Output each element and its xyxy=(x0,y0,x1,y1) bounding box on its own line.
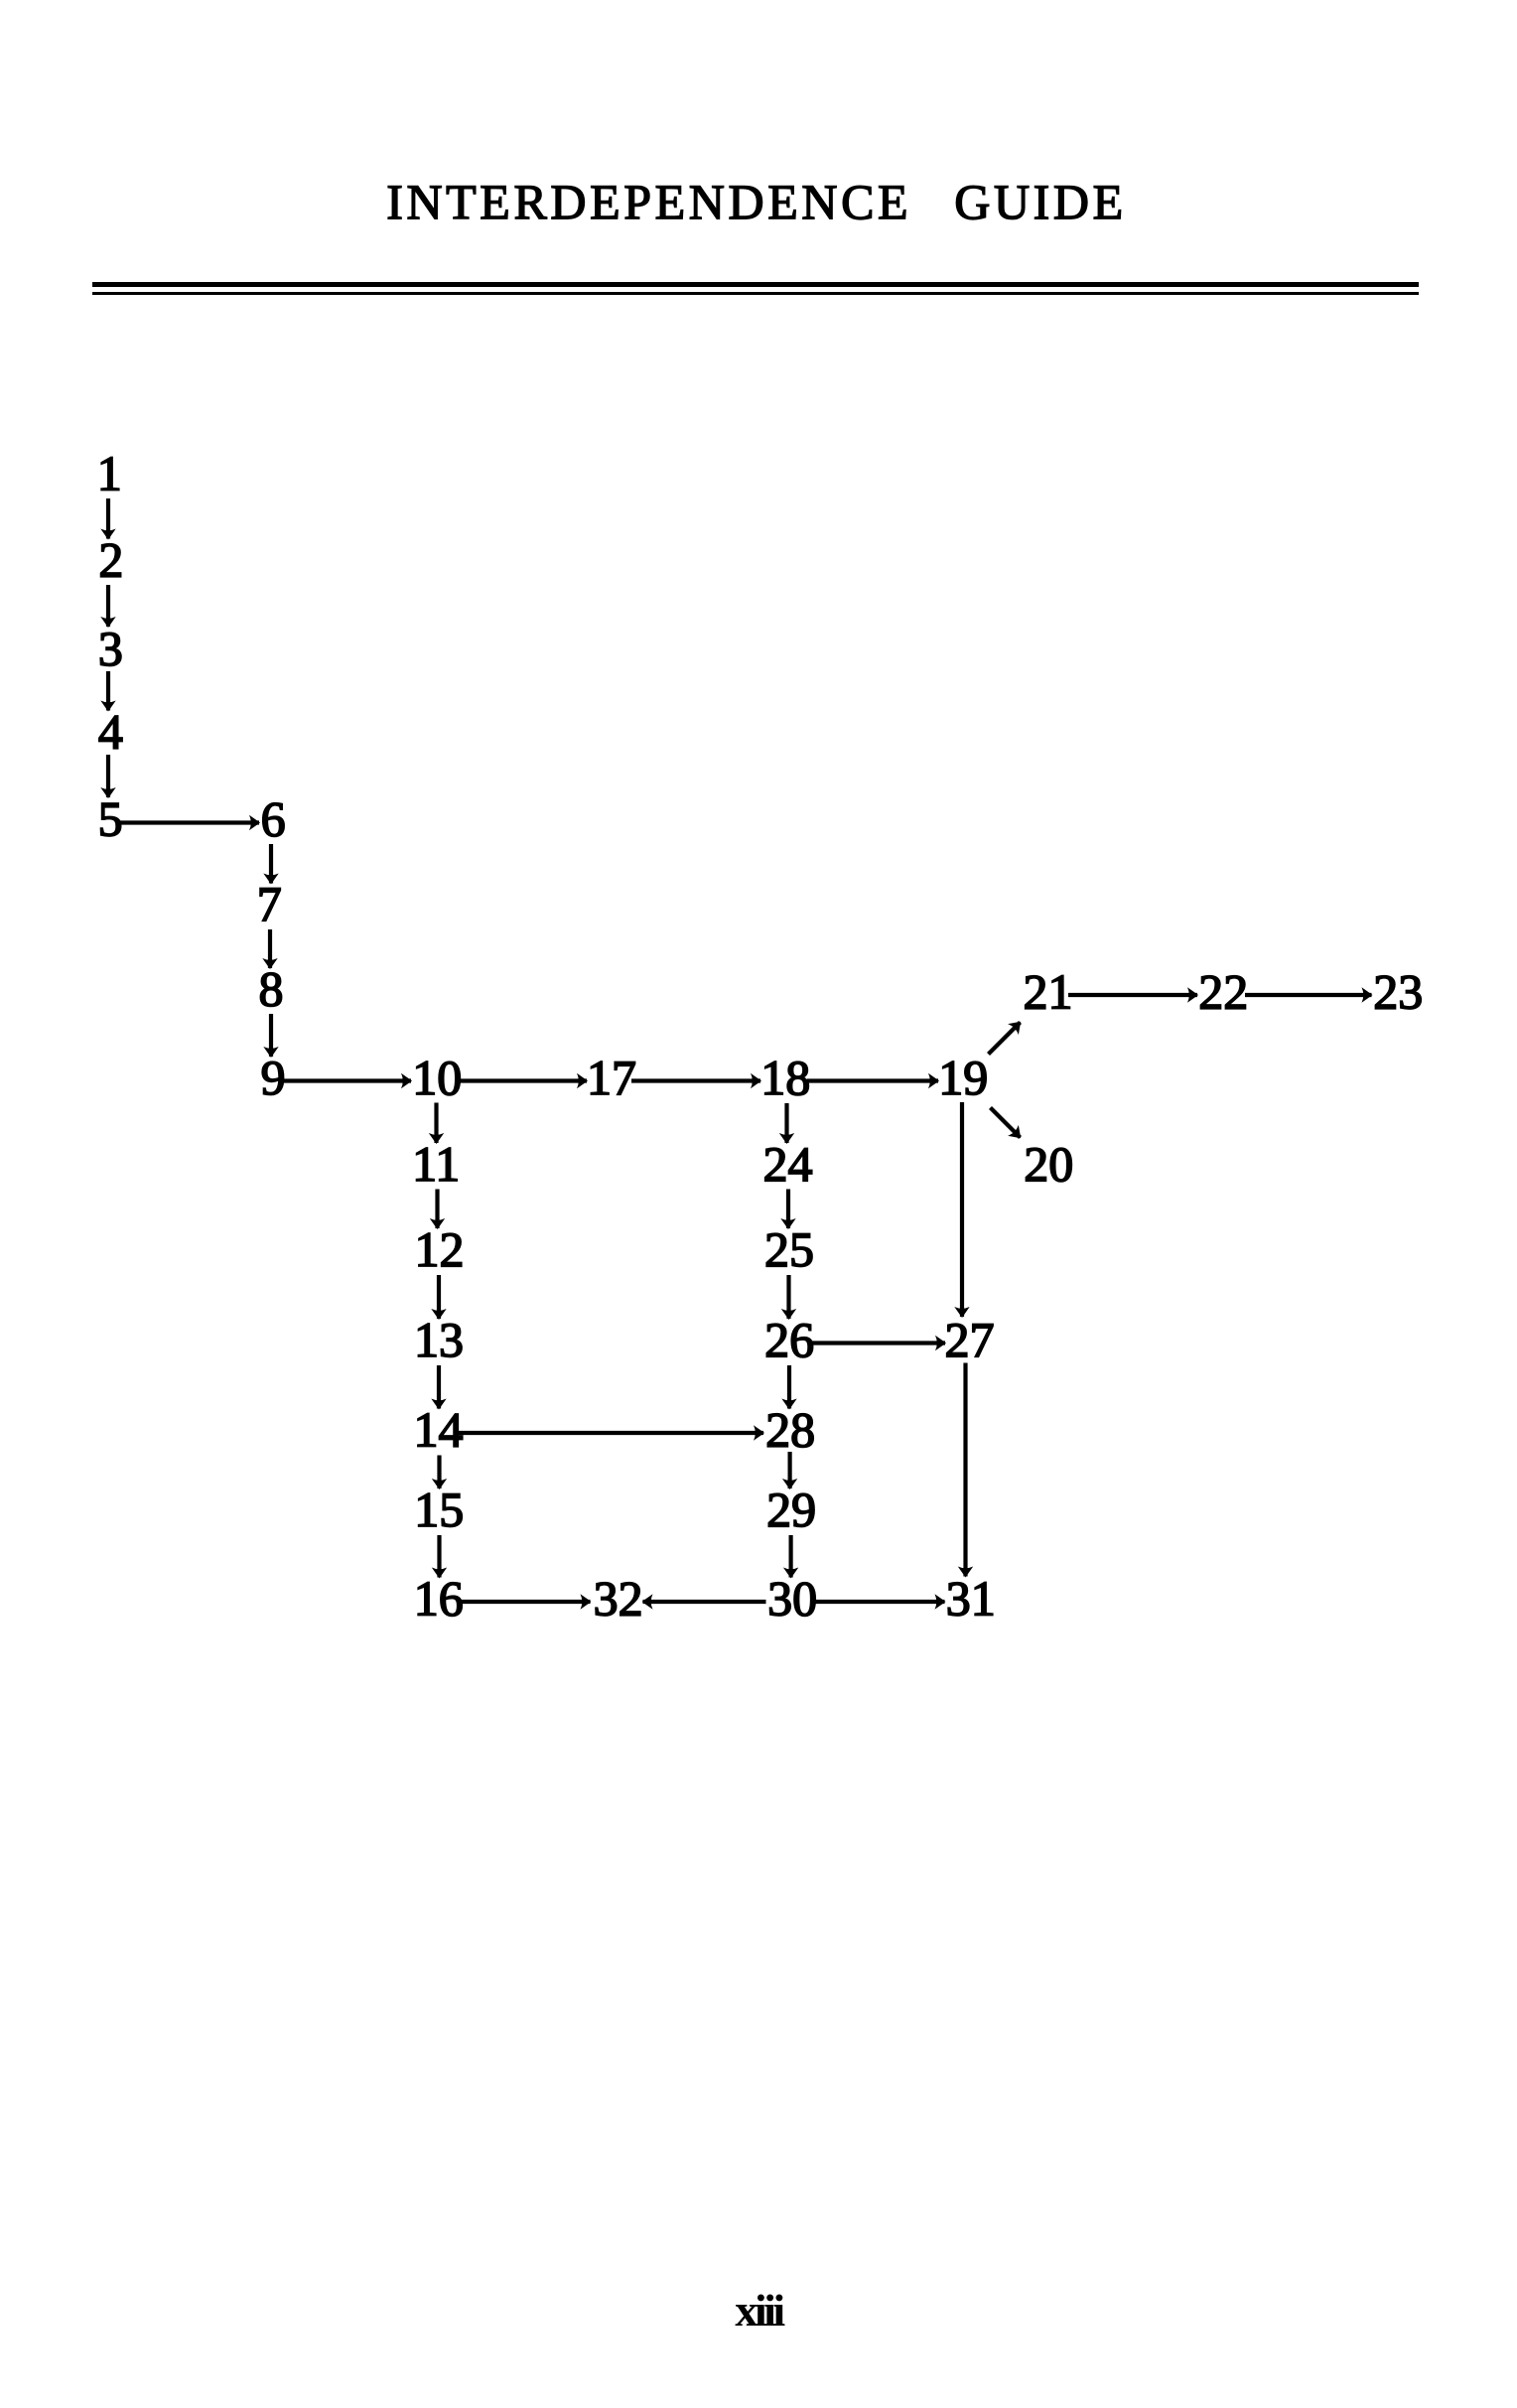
svg-text:15: 15 xyxy=(414,1482,464,1537)
double rule upper line xyxy=(92,282,1419,287)
svg-text:5: 5 xyxy=(98,791,123,847)
arrow 18-24 xyxy=(784,1103,788,1143)
svg-text:2: 2 xyxy=(98,532,123,588)
arrow 19-21 xyxy=(989,1023,1021,1055)
arrow 17-18 xyxy=(631,1078,760,1082)
arrow 24-25 xyxy=(786,1190,790,1229)
svg-text:25: 25 xyxy=(764,1221,814,1277)
arrow 1-2 xyxy=(106,498,110,539)
svg-text:14: 14 xyxy=(414,1402,464,1458)
arrow 6-7 xyxy=(269,844,273,884)
svg-text:27: 27 xyxy=(945,1312,995,1367)
svg-text:6: 6 xyxy=(261,791,286,847)
svg-text:1: 1 xyxy=(97,446,122,501)
svg-text:20: 20 xyxy=(1024,1136,1073,1192)
svg-text:3: 3 xyxy=(98,621,123,676)
svg-text:26: 26 xyxy=(764,1312,814,1367)
svg-text:16: 16 xyxy=(414,1571,464,1627)
svg-text:19: 19 xyxy=(938,1050,988,1105)
arrow 22-23 xyxy=(1245,993,1372,997)
page number xiii xyxy=(0,2284,1517,2337)
svg-text:22: 22 xyxy=(1198,964,1248,1020)
arrow 30-32 xyxy=(643,1600,766,1604)
arrow 14-15 xyxy=(437,1456,441,1489)
arrow 28-29 xyxy=(787,1452,791,1488)
svg-text:17: 17 xyxy=(587,1050,636,1105)
arrow 5-6 xyxy=(120,820,260,824)
arrow 8-9 xyxy=(269,1014,273,1057)
svg-text:28: 28 xyxy=(765,1402,815,1458)
arrow 18-19 xyxy=(807,1078,938,1082)
svg-text:9: 9 xyxy=(261,1050,286,1105)
svg-text:24: 24 xyxy=(763,1136,813,1192)
svg-text:21: 21 xyxy=(1024,964,1073,1020)
arrow 26-28 xyxy=(787,1365,791,1409)
svg-text:12: 12 xyxy=(415,1221,465,1277)
arrow 26-27 xyxy=(810,1341,945,1345)
arrow 30-31 xyxy=(814,1600,945,1604)
arrow 21-22 xyxy=(1068,993,1197,997)
arrow 27-31 xyxy=(963,1363,967,1577)
arrow 10-11 xyxy=(434,1103,438,1144)
svg-text:10: 10 xyxy=(412,1050,462,1105)
arrow 13-14 xyxy=(437,1365,441,1409)
arrow 10-17 xyxy=(457,1078,587,1082)
svg-text:7: 7 xyxy=(257,876,282,931)
svg-text:31: 31 xyxy=(946,1571,996,1627)
svg-text:13: 13 xyxy=(414,1312,464,1367)
arrow 15-16 xyxy=(437,1535,441,1578)
arrow 29-30 xyxy=(788,1535,792,1578)
arrow 4-5 xyxy=(106,755,110,797)
arrow 12-13 xyxy=(437,1275,441,1319)
arrow 19-27 xyxy=(960,1102,964,1317)
arrow 14-28 xyxy=(459,1431,764,1435)
arrow 3-4 xyxy=(106,671,110,711)
arrow 9-10 xyxy=(284,1078,411,1082)
title INTERDEPENDENCE GUIDE xyxy=(0,173,1515,230)
svg-text:30: 30 xyxy=(767,1571,817,1627)
arrow 16-32 xyxy=(460,1600,591,1604)
arrow 25-26 xyxy=(786,1275,790,1319)
svg-text:23: 23 xyxy=(1373,964,1423,1020)
arrow 11-12 xyxy=(435,1190,439,1229)
arrow 2-3 xyxy=(106,585,110,627)
double rule lower line xyxy=(92,292,1419,296)
arrow 7-8 xyxy=(268,929,272,968)
svg-text:32: 32 xyxy=(594,1571,643,1627)
svg-text:11: 11 xyxy=(412,1136,460,1192)
svg-text:4: 4 xyxy=(98,704,123,760)
svg-text:8: 8 xyxy=(259,961,284,1017)
arrow 19-20 xyxy=(991,1108,1021,1138)
svg-text:29: 29 xyxy=(766,1482,816,1537)
svg-text:18: 18 xyxy=(760,1050,810,1105)
